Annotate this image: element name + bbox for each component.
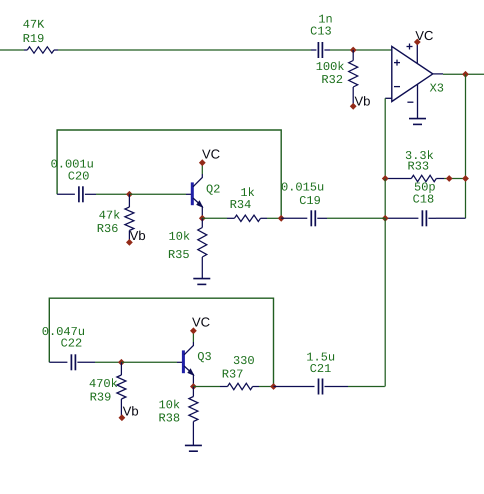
wire R33 right pin to rail [444, 178, 466, 180]
label R39 value 470k [90, 378, 118, 387]
label C19 designator [300, 196, 320, 204]
resistor R35 [201, 218, 203, 227]
label R32 designator [322, 75, 342, 83]
capacitor C13 [311, 49, 316, 51]
port Vb under R39 [119, 414, 126, 421]
label R32 value 100k [317, 61, 344, 70]
label R33 designator [408, 162, 428, 170]
wire inverting rail from op-amp [384, 98, 386, 178]
wire input net from left edge [0, 49, 24, 51]
label C22 designator [61, 339, 81, 347]
label X3 designator [430, 84, 443, 92]
label R38 designator [159, 413, 179, 421]
port Vb under R32 [350, 103, 357, 110]
op-amp X3 output stub [433, 73, 443, 75]
junction R33 left at inverting rail [382, 175, 389, 182]
junction C18/C19 at inverting rail [382, 215, 389, 222]
resistor R38 [192, 387, 194, 397]
resistor R32 [352, 50, 354, 61]
label C13 designator [311, 27, 331, 35]
node R37/C21/loop junction [270, 383, 277, 390]
resistor R33 [385, 178, 411, 180]
node Q3 emitter junction [190, 383, 197, 390]
capacitor C20 [57, 193, 75, 195]
node Q2 base junction [126, 191, 133, 198]
label C20 value 0.001u [51, 160, 93, 168]
label R34 value 1k [241, 187, 254, 196]
label R19 designator [24, 34, 44, 42]
label R36 designator [98, 224, 118, 232]
wire C22 to Q3 base node [95, 361, 121, 363]
wire node A to op-amp noninverting input [353, 49, 392, 51]
label C22 value 0.047u [43, 327, 85, 335]
resistor R37 [193, 386, 220, 388]
transistor Q2 [186, 193, 191, 195]
label C19 value 0.015u [282, 183, 324, 191]
wire Q2 base node to base [129, 193, 186, 195]
op-amp X3 negative supply pin [417, 84, 419, 118]
label R35 value 10k [169, 231, 189, 240]
label C20 designator [69, 172, 89, 180]
port VC at Q3 collector [190, 327, 197, 334]
label Q3 designator [198, 352, 211, 362]
ground below R38 [185, 444, 202, 446]
label C13 value 1n [319, 15, 331, 23]
ground below R35 [193, 278, 210, 280]
wire C13 to node A [330, 49, 353, 51]
op-amp X3 inverting input - mark [394, 86, 400, 88]
port VC at Q2 collector [199, 159, 206, 166]
label R37 value 330 [234, 356, 254, 364]
capacitor C21 [274, 386, 315, 388]
wire Q2 feedback loop [57, 130, 281, 218]
wire input rail R19 to C13 [58, 49, 311, 51]
label R37 designator [223, 370, 243, 378]
wire right rail corner to C18 [436, 217, 466, 219]
label Q2 designator [207, 185, 220, 195]
label C21 designator [310, 364, 330, 372]
capacitor C19 [281, 217, 307, 219]
port VC above op-amp [414, 39, 421, 46]
op-amp X3 positive supply pin [416, 44, 418, 64]
junction R33 at right rail [462, 175, 469, 182]
label R36 value 47k [99, 210, 119, 219]
label R35 designator [169, 250, 189, 258]
ground below op-amp X3 [409, 118, 426, 120]
output junction node [462, 71, 469, 78]
label R19 value 47K [23, 20, 44, 28]
transistor Q3 [177, 361, 182, 363]
wire R37 to loop node [259, 386, 274, 388]
capacitor C18 [385, 217, 418, 219]
op-amp X3 inverting input stub [385, 97, 392, 99]
wire R34 to loop node [267, 217, 281, 219]
label R34 designator [231, 200, 251, 208]
capacitor C22 [49, 361, 67, 363]
resistor R39 [120, 362, 122, 375]
wire C19 to inverting rail [327, 217, 385, 219]
node Q3 base junction [118, 359, 125, 366]
wire right feedback rail down [465, 74, 467, 218]
resistor R19 [24, 49, 27, 51]
wire op-amp output to right edge [443, 73, 484, 75]
label C18 designator [413, 195, 433, 203]
label R39 designator [91, 393, 111, 401]
resistor R34 [202, 217, 227, 219]
op-amp U/X3 triangle [392, 46, 433, 101]
junction R33 right pin [446, 175, 453, 182]
wire inverting rail R33 to C18 node [384, 179, 386, 219]
label R33 value 3.3k [406, 150, 433, 159]
port Vb under R36 [126, 239, 133, 246]
label R38 value 10k [159, 400, 179, 409]
label C21 value 1.5u [307, 353, 334, 361]
resistor R36 [128, 194, 130, 207]
node A junction (C13/R32/op-amp+) [350, 47, 357, 54]
op-amp X3 noninverting input + mark [394, 62, 400, 64]
node Q2 emitter junction [199, 215, 206, 222]
wire C20 to Q2 base node [96, 193, 129, 195]
node R34/C19/loop junction [278, 215, 285, 222]
wire Q3 base node to base [121, 361, 177, 363]
label C18 value 50p [415, 183, 435, 194]
wire C21 to inverting rail [348, 386, 385, 388]
wire inverting rail down to Q3 stage [384, 218, 386, 386]
wire Q3 feedback loop [49, 298, 273, 386]
